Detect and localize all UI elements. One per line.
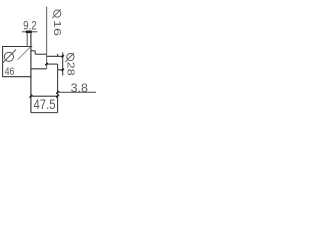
dimension 47.5 line (box top)	[31, 95, 58, 97]
mini step top edge	[31, 50, 35, 52]
section C top edge	[47, 55, 63, 57]
tick 3.8 left	[56, 91, 59, 94]
diameter 46 label: phi symbol	[2, 50, 16, 64]
tick diameter 28 top	[62, 55, 64, 57]
tick 47.5 left	[30, 95, 33, 98]
wire: A left edge	[2, 47, 4, 77]
svg-text:9.2: 9.2	[23, 19, 37, 33]
dimension 3.8 line	[58, 91, 96, 93]
wire: A bottom edge	[2, 76, 31, 78]
tick at step C bottom	[45, 63, 47, 65]
disc D left edge + extension line down to 47.5 dimension	[57, 64, 59, 113]
diameter 28 label: phi symbol	[65, 53, 74, 62]
tick 47.5 right	[56, 95, 59, 98]
diameter 16 label: phi symbol	[52, 9, 61, 18]
dimension 47.5 box bottom	[31, 112, 58, 114]
tick diameter 28 bottom	[62, 69, 64, 71]
svg-text:46: 46	[5, 66, 15, 78]
disc D bottom edge	[58, 69, 64, 71]
mini step right edge	[34, 51, 36, 54]
wire: A right edge + extension line down to dimension box	[30, 33, 32, 113]
disc D right edge / dimension line for diameter 28	[62, 52, 64, 75]
svg-text:16: 16	[51, 20, 62, 37]
tick blob 9.2	[26, 30, 32, 33]
svg-text:28: 28	[65, 62, 76, 77]
section B top edge	[35, 53, 46, 55]
extension line 9.2 left	[26, 33, 28, 46]
wire: A top edge	[2, 46, 32, 48]
section B bottom edge	[31, 68, 47, 70]
disc D left edge stub above	[57, 54, 59, 57]
diagonal dimension line segment in disc A	[18, 47, 31, 60]
svg-text:47.5: 47.5	[34, 97, 56, 112]
section C bottom edge	[47, 63, 58, 65]
disc A outline: large diameter body	[2, 47, 32, 77]
dimension 9.2 line	[22, 31, 37, 33]
step edge / dimension line for diameter 16	[46, 7, 48, 69]
